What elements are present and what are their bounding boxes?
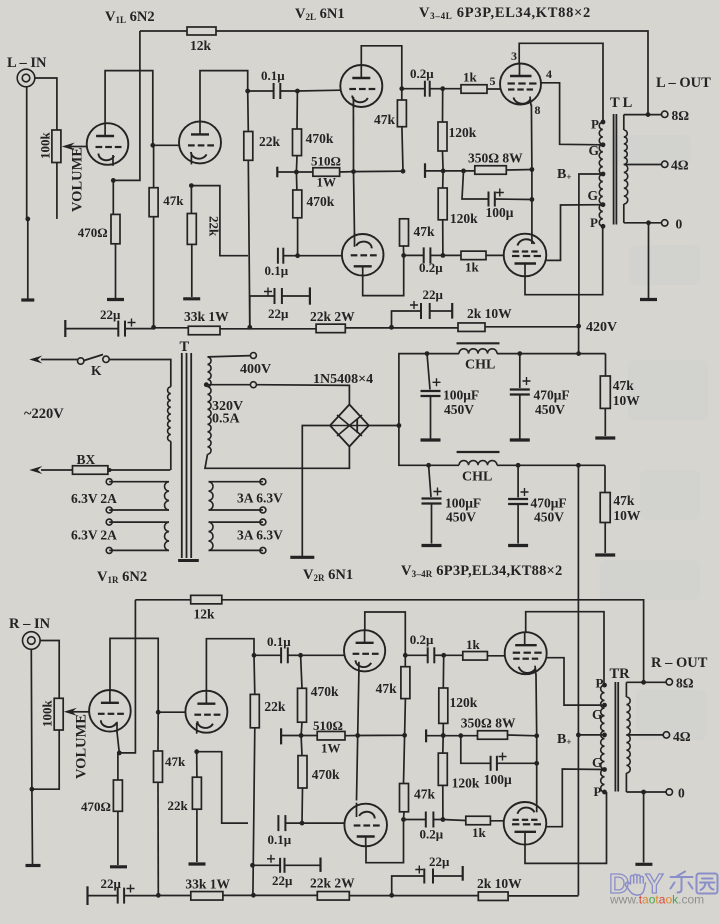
capacitor 470uF upper bbox=[519, 354, 521, 388]
wire V1Lb plate up-over bbox=[200, 71, 248, 122]
junction pot/jack ground bbox=[25, 217, 30, 222]
pentode V3L upper bbox=[500, 64, 541, 105]
svg-text:1W: 1W bbox=[317, 175, 337, 190]
junction 100u tap bbox=[461, 169, 466, 174]
svg-text:V1L 6N2: V1L 6N2 bbox=[105, 9, 155, 25]
svg-text:V1R 6N2: V1R 6N2 bbox=[97, 569, 147, 585]
T core ground bar bbox=[178, 559, 199, 562]
svg-text:1W: 1W bbox=[321, 741, 341, 756]
wire 100u to cathode line bbox=[495, 198, 532, 201]
wire V1La plate to V1Lb grid node bbox=[105, 71, 153, 146]
wire wiper to V1La grid bbox=[75, 146, 87, 148]
wire 47k2 to 0.2u node B bbox=[402, 246, 404, 255]
junction cathode line mid bbox=[530, 197, 535, 202]
svg-text:8: 8 bbox=[535, 103, 541, 117]
wire lower plate to P bbox=[525, 226, 603, 294]
svg-text:6.3V 2A: 6.3V 2A bbox=[71, 528, 117, 543]
svg-text:400V: 400V bbox=[240, 362, 271, 377]
svg-text:VOLUME: VOLUME bbox=[70, 147, 86, 212]
resistor 120k upper R bbox=[439, 688, 448, 723]
wire to V2La grid bbox=[297, 89, 340, 92]
svg-text:350Ω 8W: 350Ω 8W bbox=[468, 150, 523, 165]
wire 120k1 leads bbox=[442, 89, 445, 171]
capacitor 22u R-c bbox=[423, 869, 425, 884]
svg-text:22k: 22k bbox=[207, 216, 222, 237]
terminal 320V bbox=[250, 382, 256, 388]
wire rect out up to CHL1 bbox=[399, 354, 427, 426]
svg-text:4Ω: 4Ω bbox=[673, 729, 691, 744]
svg-text:T: T bbox=[180, 339, 190, 355]
junction V2L cathodes bbox=[351, 169, 356, 174]
ground bridge minus bbox=[290, 556, 314, 559]
svg-text:470k: 470k bbox=[306, 131, 334, 146]
resistor 350 ohm 8W bbox=[475, 166, 507, 175]
wire 100u riser R bbox=[461, 736, 491, 764]
wire grid node to V1Lb bbox=[153, 144, 179, 146]
TR primary taps bbox=[602, 683, 607, 688]
terminal 0 bbox=[662, 220, 668, 226]
switch K lever bbox=[84, 355, 103, 361]
svg-text:0.2μ: 0.2μ bbox=[410, 66, 434, 81]
choke CHL lower bbox=[459, 461, 497, 466]
wire B+ tap to 420V bbox=[579, 174, 603, 326]
wire 47k chain R bbox=[404, 655, 406, 783]
svg-text:0.2μ: 0.2μ bbox=[420, 827, 444, 842]
junction 47k2 node bbox=[401, 169, 406, 174]
svg-text:R – IN: R – IN bbox=[9, 616, 51, 632]
NFB wire cathode to 12k bbox=[113, 31, 140, 180]
resistor 12k NFB bbox=[187, 27, 216, 35]
triode V2La bbox=[340, 65, 382, 107]
wire 510R to cathode node bbox=[340, 170, 403, 173]
junction V2R cathodes bbox=[355, 733, 360, 738]
wire R bus 5 bbox=[508, 895, 578, 897]
wire cathode to 470R bbox=[112, 180, 114, 214]
svg-text:2k 10W: 2k 10W bbox=[477, 876, 522, 891]
capacitor 0.1u upper R bbox=[254, 654, 281, 656]
wire 47k chain bbox=[402, 89, 404, 246]
label + 470u1 bbox=[523, 377, 531, 385]
svg-text:CHL: CHL bbox=[462, 470, 492, 485]
choke CHL upper bbox=[459, 349, 497, 354]
wire pot bottom R bbox=[32, 730, 59, 789]
resistor 33k 1W bbox=[188, 326, 220, 335]
svg-text:0.1μ: 0.1μ bbox=[261, 68, 285, 83]
wire 100u R to cathode line bbox=[497, 762, 537, 764]
wire 470R R to ground bbox=[117, 811, 119, 865]
wire 47k top bbox=[153, 145, 155, 187]
wire cathode loop R bbox=[197, 752, 248, 823]
svg-text:P: P bbox=[590, 215, 598, 230]
fuse BX bbox=[73, 466, 108, 475]
ground 470R R bbox=[110, 865, 127, 868]
svg-text:100μF: 100μF bbox=[445, 496, 481, 511]
junction 0.2u node B R bbox=[401, 817, 406, 822]
svg-text:10W: 10W bbox=[613, 508, 641, 523]
ground 22k cathode bbox=[183, 297, 200, 300]
triode V2Lb inverted bbox=[342, 234, 384, 276]
wire 47k bottom to NFB bus bbox=[153, 217, 155, 328]
wire to V2Rb grid bbox=[302, 822, 345, 824]
label + 100u R bbox=[499, 753, 507, 761]
junction 0.1u lower R out bbox=[300, 821, 305, 826]
wire 470k chain bbox=[296, 91, 297, 216]
junction 120k mid bbox=[441, 169, 446, 174]
wire bus segment 3 bbox=[220, 328, 316, 330]
wire 510R to cathode node R bbox=[345, 734, 405, 736]
bridge rectifier diamond bbox=[330, 405, 369, 447]
wire 4ohm lead bbox=[624, 164, 662, 166]
wire 470k lower R to 0.1u bbox=[301, 788, 304, 823]
transformer TR primary coil bbox=[601, 685, 605, 792]
capacitor 0.2u upper bbox=[402, 88, 425, 90]
junction B+ rail R bbox=[576, 733, 581, 738]
ground TL 0 bbox=[640, 298, 657, 301]
resistor 470 ohm bbox=[111, 214, 120, 243]
resistor 47k 10W upper bbox=[600, 376, 610, 408]
label + c bbox=[410, 301, 418, 309]
svg-text:22k 2W: 22k 2W bbox=[310, 876, 355, 891]
wire power cathode chain bbox=[530, 105, 533, 234]
wire bridge minus to ground bbox=[302, 426, 330, 557]
capacitor 0.1u lower bbox=[277, 248, 279, 264]
svg-text:V2R 6N1: V2R 6N1 bbox=[303, 567, 353, 583]
L NFB bus wire bbox=[140, 30, 187, 32]
ground 47k lower bbox=[595, 553, 615, 556]
resistor 120k lower R bbox=[438, 753, 447, 785]
svg-text:120k: 120k bbox=[452, 776, 480, 791]
svg-text:450V: 450V bbox=[444, 402, 474, 417]
svg-text:0.2μ: 0.2μ bbox=[410, 632, 434, 647]
svg-text:BX: BX bbox=[77, 452, 96, 467]
junction 420V riser bbox=[576, 351, 581, 356]
filament winding 3 bbox=[209, 482, 263, 510]
svg-text:4: 4 bbox=[546, 67, 552, 81]
capacitor 0.1u upper bbox=[248, 90, 274, 92]
svg-text:1k: 1k bbox=[466, 637, 481, 652]
wire power cathode chain R bbox=[535, 675, 538, 803]
bias line end bar bbox=[276, 167, 278, 178]
R-IN input jack bbox=[23, 632, 41, 650]
triode V1La bbox=[87, 123, 129, 165]
resistor 470k upper R bbox=[298, 688, 307, 722]
junction 22u Rc on bus bbox=[389, 893, 394, 898]
wire plate node to 22k R bbox=[253, 655, 256, 694]
wire 470k lower to 0.1u bbox=[297, 218, 299, 256]
R channel B+ rail bbox=[577, 465, 579, 895]
junction V1Lb grid node bbox=[150, 143, 155, 148]
pot wiper arrow bbox=[65, 146, 75, 148]
svg-text:K: K bbox=[91, 363, 102, 378]
wire bus segment 2 bbox=[155, 327, 188, 329]
resistor 47k upper bbox=[397, 100, 406, 127]
svg-text:L – OUT: L – OUT bbox=[656, 75, 711, 91]
wire 350R line R bbox=[426, 735, 477, 737]
cathode bias end bar R bbox=[425, 729, 427, 742]
svg-text:22μ: 22μ bbox=[272, 873, 293, 888]
wire switch to primary bbox=[109, 360, 171, 387]
junction CHL2 in bbox=[426, 463, 431, 468]
capacitor 0.1u lower R bbox=[277, 815, 279, 831]
svg-text:0.1μ: 0.1μ bbox=[265, 263, 289, 278]
capacitor 100u bbox=[488, 192, 490, 207]
wire 0 to ground R bbox=[643, 792, 645, 863]
svg-text:100k: 100k bbox=[38, 132, 53, 160]
junction 47k2 node R bbox=[402, 733, 407, 738]
resistor 1k lower R bbox=[466, 816, 491, 825]
svg-text:47k: 47k bbox=[414, 224, 436, 239]
svg-text:0: 0 bbox=[676, 217, 683, 232]
svg-text:V2L 6N1: V2L 6N1 bbox=[295, 6, 345, 22]
triode V2Rb inverted bbox=[344, 804, 387, 847]
terminal 4ohm R bbox=[663, 732, 669, 738]
resistor 510 ohm bbox=[313, 168, 340, 177]
capacitor 22u bus-a bbox=[117, 321, 119, 337]
wire 120k2 leads bbox=[442, 171, 444, 256]
junction V1Rb plate node bbox=[252, 653, 257, 658]
svg-text:47k: 47k bbox=[376, 681, 398, 696]
bias line end bar R bbox=[280, 728, 282, 744]
svg-text:8Ω: 8Ω bbox=[676, 676, 694, 691]
wire 350R line bbox=[425, 170, 475, 172]
wire to V2Lb grid bbox=[298, 255, 343, 257]
TL secondary coil bbox=[623, 115, 625, 130]
resistor 1k upper R bbox=[463, 652, 488, 661]
capacitor 0.2u lower R bbox=[404, 819, 426, 821]
pot wiper arrow R bbox=[67, 711, 77, 713]
terminal 0 R bbox=[666, 789, 672, 795]
wire down to V2Lb cathode bbox=[354, 172, 355, 236]
filament winding 3 terminals bbox=[260, 479, 266, 485]
wire cathode loop to lower 0.1u bbox=[191, 186, 248, 256]
wire R pin3 to P bbox=[526, 612, 604, 685]
resistor 470k lower bbox=[293, 190, 302, 218]
svg-text:470μF: 470μF bbox=[534, 388, 570, 403]
TL core bbox=[613, 114, 615, 225]
svg-text:CHL: CHL bbox=[465, 358, 495, 373]
resistor 1k upper bbox=[461, 85, 487, 94]
svg-text:P: P bbox=[594, 784, 602, 799]
junction NFB at 8ohm bbox=[646, 112, 651, 117]
wire 4ohm lead R bbox=[626, 734, 663, 736]
wire 1k lower R leads bbox=[443, 820, 504, 821]
junction V1Ra cathode bbox=[117, 751, 122, 756]
filament winding 2 bbox=[109, 522, 169, 550]
wire wiper to V1Ra grid bbox=[77, 711, 89, 713]
resistor 470 ohm R bbox=[113, 780, 122, 811]
wire 22k R down to bus bbox=[253, 728, 255, 896]
22u Rc end bar bbox=[462, 866, 464, 881]
ground 100uF upper bbox=[421, 438, 441, 441]
junction 1k node R bbox=[441, 653, 446, 658]
resistor 2k 10W R bbox=[478, 892, 508, 901]
svg-text:470k: 470k bbox=[311, 684, 339, 699]
capacitor 22u R-b bbox=[253, 864, 281, 866]
watermark yuan (园) bbox=[697, 874, 718, 894]
ground 470uF upper bbox=[510, 438, 530, 441]
svg-text:P: P bbox=[591, 117, 599, 132]
junction 420V bbox=[576, 324, 581, 329]
wire jack to pot R bbox=[40, 641, 59, 699]
triode V1Rb bbox=[185, 691, 227, 733]
svg-text:G: G bbox=[592, 707, 603, 722]
ground 470uF lower bbox=[508, 544, 528, 547]
svg-text:1N5408×4: 1N5408×4 bbox=[313, 372, 373, 387]
resistor 33k 1W R bbox=[191, 892, 223, 901]
capacitor 22u bus-b bbox=[274, 288, 276, 304]
svg-text:1k: 1k bbox=[472, 825, 487, 840]
capacitor 22u R-a bbox=[117, 888, 119, 904]
svg-text:22μ: 22μ bbox=[423, 287, 444, 302]
R NFB bus bbox=[135, 599, 190, 601]
wire bus segment 5 bbox=[485, 326, 579, 328]
wire tap to 320V term bbox=[206, 384, 250, 386]
T core lines bbox=[181, 353, 183, 558]
label + 100u2 bbox=[434, 488, 442, 496]
junction 22k chain on R bus bbox=[251, 893, 256, 898]
capacitor 0.2u lower bbox=[404, 254, 424, 256]
svg-text:420V: 420V bbox=[586, 320, 617, 335]
wire bias line R bbox=[281, 735, 317, 737]
wire 420V riser bbox=[578, 326, 580, 354]
label + Rb bbox=[267, 855, 275, 863]
label + Ra bbox=[127, 885, 135, 893]
NFB wire R bbox=[119, 600, 135, 753]
svg-text:5: 5 bbox=[490, 74, 496, 88]
pentode V3L lower inverted bbox=[504, 234, 547, 277]
resistor 120k lower bbox=[438, 188, 447, 220]
wire jack to pot top bbox=[35, 78, 57, 130]
capacitor 22u bus-c riser bbox=[392, 311, 422, 327]
junction 470k mid bbox=[294, 170, 299, 175]
svg-text:6.3V 2A: 6.3V 2A bbox=[71, 491, 117, 506]
filament winding 4 terminals bbox=[260, 519, 266, 525]
ground 47k upper bbox=[595, 436, 615, 439]
22u b end bar bbox=[309, 287, 311, 304]
svg-text:10W: 10W bbox=[613, 393, 641, 408]
wire V2Rb plate down-over-up bbox=[366, 820, 404, 863]
ground jack/pot bbox=[21, 298, 34, 301]
resistor 22k plate load bbox=[244, 132, 253, 161]
junction rectifier output bbox=[397, 423, 402, 428]
TR secondary coil bbox=[625, 682, 627, 697]
capacitor 100uF upper bbox=[427, 354, 430, 390]
junction 0.2u node A bbox=[399, 86, 404, 91]
svg-text:100μ: 100μ bbox=[484, 772, 512, 787]
svg-text:T L: T L bbox=[610, 95, 633, 111]
wire 120k1 R leads bbox=[442, 655, 445, 735]
junction 0.1u R out bbox=[298, 653, 303, 658]
wire bridge plus out bbox=[369, 425, 399, 427]
resistor 47k lower R bbox=[400, 784, 409, 812]
svg-text:1k: 1k bbox=[463, 70, 478, 85]
22u c end bar bbox=[451, 303, 453, 319]
wire fuse to primary bbox=[108, 469, 170, 471]
label + 470u2 bbox=[521, 488, 529, 496]
resistor 22k plate R bbox=[250, 694, 259, 727]
svg-text:0.1μ: 0.1μ bbox=[267, 634, 291, 649]
svg-text:47k: 47k bbox=[374, 112, 396, 127]
junction 120k2 bottom node bbox=[441, 253, 446, 258]
resistor 22k cathode R bbox=[192, 777, 201, 809]
svg-text:3A 6.3V: 3A 6.3V bbox=[237, 491, 283, 506]
wire V2Ra plate up-over bbox=[365, 612, 406, 655]
wire jack down to ground node bbox=[27, 87, 28, 299]
junction 100u tap R bbox=[458, 733, 463, 738]
resistor 22k 2W R bbox=[317, 892, 349, 901]
wire plate node to 22k bbox=[247, 91, 250, 132]
wire CHL1 line bbox=[427, 353, 606, 355]
junction 120k mid R bbox=[441, 733, 446, 738]
svg-text:12k: 12k bbox=[194, 607, 216, 622]
junction 47k chain on bus bbox=[151, 325, 156, 330]
junction 470u1 tap bbox=[517, 351, 522, 356]
wire 47k R bottom to bus bbox=[157, 782, 159, 895]
svg-text:450V: 450V bbox=[446, 510, 476, 525]
wire bus segment 1 bbox=[65, 328, 118, 330]
L-IN input jack bbox=[17, 69, 35, 87]
junction 470k R mid bbox=[299, 733, 304, 738]
junction V1Rb cathode bbox=[194, 749, 199, 754]
svg-text:100μF: 100μF bbox=[443, 388, 479, 403]
wire 47k bleeder upper bbox=[605, 354, 607, 376]
wire V1Ra plate up-over bbox=[110, 638, 158, 712]
junction V1Rb grid node bbox=[156, 710, 161, 715]
transformer T mains primary coil bbox=[168, 387, 171, 441]
svg-text:47k: 47k bbox=[613, 493, 635, 508]
capacitor 470uF lower bbox=[517, 465, 519, 497]
svg-text:450V: 450V bbox=[534, 510, 564, 525]
label + bbox=[496, 189, 504, 197]
ground TR 0 bbox=[635, 863, 652, 866]
filament winding 1 terminals bbox=[106, 479, 112, 485]
junction V1Lb cathode bbox=[189, 183, 194, 188]
svg-text:22μ: 22μ bbox=[268, 306, 289, 321]
junction 0.1u out bbox=[295, 89, 300, 94]
junction 0.1u lower out bbox=[295, 253, 300, 258]
svg-text:G: G bbox=[589, 143, 600, 158]
svg-text:22μ: 22μ bbox=[100, 307, 121, 322]
wire bleeder2 to gnd bbox=[604, 523, 606, 554]
wire B+ tap R bbox=[578, 734, 604, 736]
wire 0 lead R bbox=[626, 791, 666, 793]
ground 470R bbox=[107, 298, 124, 301]
wire CHL2 line bbox=[429, 464, 605, 466]
junction power cathodes upper bbox=[530, 167, 535, 172]
wire bleeder to gnd bbox=[604, 408, 606, 436]
wire R lower pin4 to G tap bbox=[546, 769, 604, 827]
resistor 22k 2W bbox=[316, 324, 345, 333]
junction 470u2 tap bbox=[516, 463, 521, 468]
wire 470R to ground bbox=[115, 244, 117, 299]
svg-text:470k: 470k bbox=[307, 194, 335, 209]
R bus left end bar bbox=[86, 886, 88, 905]
wire 22k down to bus bbox=[248, 160, 250, 327]
svg-text:4Ω: 4Ω bbox=[671, 158, 689, 173]
junction 47k chain on R bus bbox=[156, 893, 161, 898]
svg-text:120k: 120k bbox=[450, 695, 478, 710]
svg-text:0.1μ: 0.1μ bbox=[268, 832, 292, 847]
svg-text:0: 0 bbox=[678, 786, 685, 801]
triode V2Ra bbox=[344, 630, 385, 671]
wire 350R to cathode junction bbox=[506, 169, 532, 172]
pentode V3R upper bbox=[505, 632, 547, 674]
svg-text:22μ: 22μ bbox=[101, 876, 122, 891]
svg-text:22k: 22k bbox=[264, 699, 286, 714]
svg-text:120k: 120k bbox=[449, 125, 477, 140]
wire pin4 to G tap bbox=[541, 83, 603, 145]
wire 47k bleeder lower bbox=[604, 465, 606, 492]
